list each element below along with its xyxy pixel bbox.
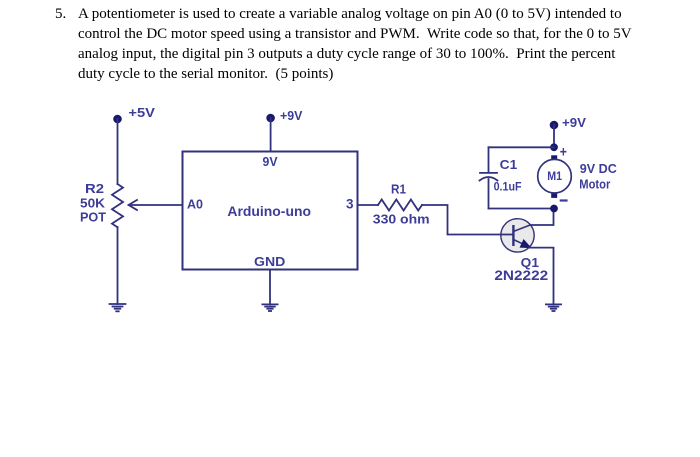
svg-text:M1: M1 [547, 169, 562, 183]
svg-text:330 ohm: 330 ohm [373, 213, 430, 227]
svg-text:C1: C1 [500, 158, 518, 172]
wire +9V to box top [270, 118, 272, 152]
svg-text:POT: POT [80, 210, 106, 225]
transistor Q1 [501, 219, 534, 252]
IC U1 Arduino-uno box [183, 152, 358, 270]
wire bottom of C1 to motor- node [489, 208, 555, 210]
node +5V terminal dot [114, 116, 121, 123]
svg-text:+9V: +9V [280, 108, 303, 123]
wire +5V to R2 top [117, 119, 119, 184]
svg-text:3: 3 [346, 197, 354, 212]
wire C1 left lower [488, 179, 490, 209]
node +9V terminal dot (middle) [267, 115, 274, 122]
svg-text:9V DC: 9V DC [580, 161, 618, 176]
svg-text:50K: 50K [80, 196, 106, 211]
svg-text:+5V: +5V [128, 106, 155, 120]
ground (center) [262, 304, 277, 311]
ground (right) [546, 304, 561, 311]
resistor R1 zigzag [378, 200, 422, 211]
svg-text:GND: GND [254, 255, 285, 269]
wire C1 left upper [488, 147, 490, 172]
motor M1 [538, 155, 572, 198]
wiper arrow wire from A0 to R2 [129, 204, 182, 206]
svg-text:R2: R2 [85, 181, 104, 196]
svg-text:9V: 9V [263, 154, 278, 169]
svg-text:Motor: Motor [579, 177, 610, 192]
svg-text:A0: A0 [187, 197, 203, 212]
svg-text:Arduino-uno: Arduino-uno [227, 204, 311, 219]
wire top of C1 [489, 146, 555, 148]
ground (left) [110, 304, 126, 311]
wire GND pin to ground [269, 270, 271, 305]
svg-text:+: + [560, 143, 567, 160]
node motor- junction [551, 206, 557, 212]
capacitor C1 [480, 173, 498, 181]
resistor R2 potentiometer zigzag [112, 184, 123, 227]
wire R2 bottom to ground [117, 227, 119, 304]
node +9V terminal dot (right) [551, 122, 558, 129]
wire +9V to motor+ node [553, 125, 555, 147]
node motor+ junction [551, 144, 557, 150]
svg-text:0.1uF: 0.1uF [494, 180, 522, 194]
svg-text:2N2222: 2N2222 [494, 267, 548, 283]
wire collector to motor- node [530, 209, 554, 226]
wire pin 3 to R1 [358, 204, 379, 206]
svg-text:+9V: +9V [562, 115, 586, 130]
problem text [55, 4, 66, 24]
wire R1 to transistor base [422, 205, 502, 235]
label - [561, 199, 567, 201]
svg-text:R1: R1 [391, 183, 406, 197]
arrowhead [129, 200, 138, 210]
wire emitter to ground [529, 248, 554, 305]
